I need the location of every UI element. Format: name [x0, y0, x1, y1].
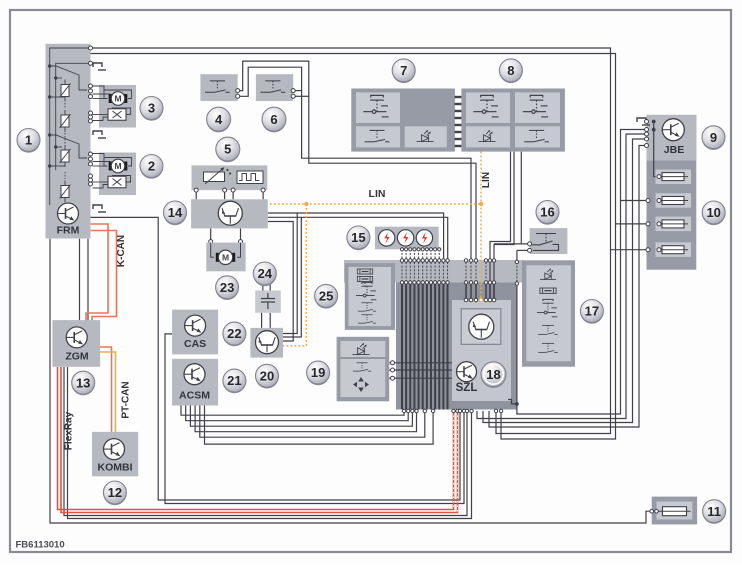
fuse row 2: [656, 193, 692, 208]
block 11 fuse symbol: [659, 507, 691, 516]
numbered callout circle 17: [580, 300, 603, 324]
wire red pair dashes near SZL bottom: [453, 411, 455, 510]
SZL coil spring sub-box: [461, 309, 501, 345]
svg-text:17: 17: [585, 304, 599, 319]
numbered callout circle 10: [702, 201, 725, 225]
svg-text:11: 11: [707, 504, 721, 519]
block 25 bracket symbol: [357, 269, 372, 274]
svg-text:1: 1: [25, 133, 32, 148]
svg-text:15: 15: [351, 230, 365, 245]
svg-text:21: 21: [227, 373, 241, 388]
svg-text:JBE: JBE: [664, 144, 684, 156]
wire block16 pin2 to SZL right dashed line: [517, 249, 530, 251]
transistor symbol JBE: [662, 119, 684, 141]
svg-text:16: 16: [540, 205, 554, 220]
motor M symbol: [211, 243, 241, 258]
wire ACSM fan line 6: [205, 406, 434, 445]
block 8 sub-box bottom-left LED: [466, 126, 510, 147]
wire FRM bottom pair to ZGM top line 2: [87, 239, 89, 320]
JBE and fuse carrier outer block: [647, 115, 697, 270]
FRM internal bus wire 1: [50, 48, 91, 205]
PWM symbol in block 5: [237, 171, 263, 184]
svg-text:22: 22: [227, 326, 241, 341]
wire ACSM fan line 3: [190, 406, 412, 427]
wire K-CAN dark single FRM to SZL bottom: [91, 217, 461, 500]
wire FRM to top-right highway line 1: [91, 48, 611, 434]
block 16 pins: [528, 242, 532, 246]
svg-text:14: 14: [168, 205, 183, 220]
svg-text:13: 13: [76, 375, 90, 390]
wire main vertical bundle 12 lines: [401, 284, 403, 410]
wire ZGM bottom dark pair to SZL line 2: [68, 367, 472, 519]
svg-text:KOMBI: KOMBI: [98, 462, 133, 474]
svg-text:7: 7: [400, 63, 407, 78]
column control module block 14: [191, 199, 268, 228]
wire block15 stubs to band: [401, 249, 403, 260]
block 7 sub-box bottom-left: [356, 126, 400, 147]
junction dot at SZL lower right: [515, 402, 519, 406]
svg-text:FB6113010: FB6113010: [16, 540, 65, 551]
svg-text:K-CAN: K-CAN: [116, 235, 127, 267]
svg-text:PT-CAN: PT-CAN: [121, 381, 132, 418]
motor M in block 2: [109, 159, 128, 173]
svg-text:M: M: [222, 253, 229, 263]
X-function box in block 3: [108, 109, 126, 121]
wire branch down to transistor block20 line 1: [283, 213, 297, 334]
mirror actuator block 3: [99, 85, 136, 128]
block 17 contact symbol: [537, 299, 557, 316]
block 7 sub-box top-left: [356, 92, 400, 123]
ribbon connector between 7 and 8: [455, 96, 462, 98]
numbered callout circle 2: [140, 155, 163, 179]
svg-text:9: 9: [710, 130, 717, 145]
svg-text:SZL: SZL: [456, 382, 478, 394]
transistor symbol block 14: [218, 201, 242, 225]
fuse row 3: [656, 217, 692, 232]
svg-text:ACSM: ACSM: [179, 390, 210, 402]
block 19 inner panel: [341, 341, 386, 397]
block 25 bracket symbol 2: [357, 276, 372, 281]
FRM internal resistor symbols: [60, 80, 71, 102]
wire capacitor to transistor block: [261, 313, 263, 328]
wire FRM bottom-left single to component 11: [50, 239, 652, 523]
wire LIN dotted horizontal: [270, 203, 481, 205]
wire ACSM fan line 5: [200, 406, 425, 438]
wire ZGM bottom dark pair to SZL line 1: [64, 367, 467, 516]
FRM right edge pins: [89, 46, 93, 50]
block 17 switch symbol 2: [538, 343, 558, 352]
SZL bottom pin row: [402, 409, 405, 412]
wire PT-CAN pair line 1 ZGM to KOMBI: [100, 347, 111, 432]
wire PT-CAN pair line 2 ZGM to KOMBI: [100, 352, 115, 432]
numbered callout circle 20: [256, 364, 279, 388]
block 19 right pins: [391, 361, 395, 365]
FRM junction dots: [48, 64, 51, 67]
switch block 16: [530, 228, 568, 254]
wire fuse row2 to bundle: [621, 200, 649, 202]
numbered callout circle 22: [223, 322, 246, 346]
wire SZL feed left group dashed in band: [465, 262, 467, 282]
block 25 switch symbol 2: [358, 315, 376, 323]
central dark block behind SZL: [396, 283, 517, 410]
svg-text:4: 4: [215, 112, 223, 127]
wire block8 right pin 1 down-left to SZL: [490, 152, 511, 300]
connector band across centre: [344, 260, 523, 283]
fuse row 4: [656, 242, 692, 257]
numbered callout circle 24: [253, 262, 276, 286]
numbered callout circle 9: [702, 126, 725, 150]
FRM terminal symbol top: [93, 63, 106, 70]
wire block6 pin1 stub: [293, 90, 301, 92]
svg-text:25: 25: [319, 289, 333, 304]
numbered callout circle 18: [481, 362, 506, 388]
block 19 LED symbol: [353, 343, 370, 355]
control block 5: [192, 165, 268, 190]
CAS module block: [172, 310, 218, 355]
wire block14 third output to block20: [268, 222, 293, 342]
X-function box in block 2: [108, 176, 126, 188]
wire FRM to top-right highway line 2: [91, 54, 616, 440]
wire block8 right pin 3 down to junction: [520, 152, 522, 244]
SZL coil spring symbol: [469, 314, 494, 339]
numbered callout circle 8: [499, 59, 522, 83]
block 6 pins: [291, 89, 295, 93]
flasher bolt symbol 1: [379, 230, 395, 246]
numbered callout circle 16: [536, 201, 559, 225]
wires FRM to block 2: [93, 154, 132, 189]
wire block6 pin2 stub: [293, 95, 309, 97]
motor M in block 3: [109, 92, 128, 106]
band bottom pin row: [400, 281, 403, 284]
SZL module block: [452, 300, 511, 401]
wire block19 pin1 to SZL: [389, 362, 452, 364]
switch symbol block 6: [261, 81, 286, 92]
svg-text:19: 19: [311, 365, 325, 380]
wire ACSM fan line 1: [181, 406, 404, 416]
wire JBE pin3 feed: [483, 139, 647, 423]
JBE internal junction dots: [652, 120, 656, 124]
LIN pin into SZL: [479, 298, 483, 302]
block 17 switch symbol 1: [538, 325, 558, 334]
transistor symbol KOMBI: [104, 439, 125, 460]
dashed pin on SZL right: [515, 260, 518, 263]
switch symbol block 16: [532, 234, 559, 251]
switch block 6: [256, 74, 293, 101]
flasher bolt symbol 3: [416, 230, 432, 246]
wire SZL right edge hook to junction: [508, 400, 517, 404]
numbered callout circle 14: [164, 201, 187, 225]
block 8 sub-box top-right: [515, 92, 560, 123]
capacitor block 24: [255, 291, 281, 313]
wire capacitor block stubs up: [262, 282, 264, 291]
SZL top pins: [464, 298, 468, 302]
wire fuse row3 to bundle: [616, 223, 649, 225]
svg-text:2: 2: [148, 159, 155, 174]
block 17 inner panel: [526, 265, 571, 361]
numbered callout circle 4: [207, 107, 231, 132]
svg-text:CAS: CAS: [184, 338, 206, 350]
wire CAS to SZL bottom: [165, 334, 464, 504]
block 19 arrows symbol: [353, 377, 369, 392]
svg-text:FRM: FRM: [57, 225, 80, 237]
wire block14 to motor left: [210, 228, 212, 242]
svg-text:12: 12: [108, 485, 122, 500]
FRM terminal symbol bottom: [93, 205, 106, 212]
wire block14 to motor right: [240, 228, 242, 242]
numbered callout circle 13: [72, 371, 95, 395]
transistor circle block 20: [256, 331, 279, 354]
svg-text:6: 6: [270, 112, 277, 127]
svg-text:24: 24: [258, 266, 273, 281]
svg-text:5: 5: [224, 142, 231, 157]
svg-text:FlexRay: FlexRay: [64, 411, 75, 450]
switch cluster block 7: [351, 89, 455, 152]
motor block below 14: [206, 243, 245, 272]
transistor symbol ACSM: [184, 364, 205, 385]
numbered callout circle 3: [140, 97, 163, 121]
block 17 bracket symbol: [540, 288, 556, 293]
flasher bolt symbol 2: [397, 230, 413, 246]
wire block19 pin2 to SZL: [389, 369, 452, 371]
KOMBI module block: [92, 432, 138, 476]
wire ACSM fan line 2: [186, 406, 409, 421]
JBE internal wire to fuse 1: [654, 122, 659, 177]
wire JBE pin4 feed: [489, 146, 647, 428]
numbered callout circle 5: [216, 137, 240, 162]
numbered callout circle 15: [347, 226, 370, 250]
numbered callout circle 21: [223, 369, 246, 393]
wire FlexRay red pair line 2 ZGM to SZL: [61, 367, 458, 513]
wire SZL feed right group dashed in band: [485, 262, 487, 282]
svg-text:23: 23: [220, 280, 234, 295]
svg-text:8: 8: [507, 63, 514, 78]
FRM transistor symbol: [58, 203, 79, 224]
FRM module block: [46, 44, 91, 239]
band top pin row: [400, 259, 403, 262]
wires FRM to block 3: [93, 86, 132, 121]
wire LIN dotted vertical to block8: [480, 152, 482, 300]
capacitor symbol: [261, 293, 275, 309]
block 5 bottom pins: [194, 188, 198, 192]
block15 bottom pins: [400, 248, 403, 251]
svg-text:LIN: LIN: [369, 188, 386, 200]
block 11 inner: [657, 502, 693, 520]
LIN junction dot right: [479, 202, 483, 206]
LIN junction dot left: [304, 202, 308, 206]
wire block5 pins to block14: [195, 190, 197, 199]
numbered callout circle 1: [17, 129, 40, 153]
SZL transistor symbol: [457, 362, 477, 382]
switch cluster block 8: [461, 89, 565, 152]
switch symbol block 4: [205, 81, 230, 92]
wire FRM bottom pair to ZGM top line 1: [79, 239, 81, 320]
svg-text:M: M: [114, 94, 121, 104]
block 25 inner panel: [349, 267, 392, 326]
flasher block 15: [375, 227, 439, 250]
wire block14 to band pair line 2: [268, 217, 448, 260]
rheostat symbol in block 5: [204, 167, 232, 184]
wire K-CAN red pair line 1: [86, 224, 108, 320]
wire block4 pin1 loop over to block6 and band: [238, 61, 476, 260]
block 8 sub-box top-left: [466, 92, 510, 123]
svg-text:18: 18: [486, 367, 500, 382]
wire FlexRay red pair line 1 ZGM to SZL: [58, 367, 454, 510]
numbered callout circle 23: [216, 276, 239, 300]
control block 19 outer: [337, 337, 390, 402]
wire block4 pin2 loop over to block6 and band: [238, 67, 471, 260]
JBE terminal symbol: [637, 118, 650, 125]
transistor symbol CAS: [185, 315, 206, 336]
block 25 switch symbol 1: [358, 303, 376, 311]
svg-text:3: 3: [148, 101, 155, 116]
wire ACSM fan line 4: [195, 406, 416, 432]
switch block 4: [200, 74, 237, 101]
svg-text:20: 20: [260, 368, 274, 383]
block 19 switch symbol: [353, 363, 371, 371]
JBE left pins: [645, 120, 649, 124]
numbered callout circle 25: [315, 284, 338, 308]
fuse row 1: [656, 170, 692, 185]
block 11 pins: [650, 509, 654, 513]
ACSM module block: [172, 359, 218, 406]
wire block14 to band pair line 1: [268, 213, 444, 260]
switch cluster block 25 outer: [345, 263, 395, 330]
FRM terminal symbol middle: [93, 131, 106, 138]
svg-text:ZGM: ZGM: [65, 351, 89, 363]
numbered callout circle 6: [262, 107, 286, 132]
block 14 bottom pins: [209, 240, 213, 244]
block 17 LED symbol: [540, 268, 556, 279]
svg-text:10: 10: [706, 205, 720, 220]
wire branch down to transistor block20 line 2: [283, 217, 301, 337]
wire LIN branch down to block20: [283, 204, 306, 346]
wire bundle dashed in band: [401, 262, 403, 282]
transistor block 20: [250, 328, 283, 358]
wire block19 pin3 to SZL: [389, 377, 452, 379]
block 25 contact symbol: [356, 282, 376, 299]
FRM internal switch wiring: [50, 66, 87, 179]
numbered callout circle 12: [103, 481, 126, 505]
JBE light section: [647, 115, 697, 161]
ZGM module block: [52, 320, 100, 367]
numbered callout circle 19: [307, 361, 330, 385]
numbered callout circle 7: [392, 59, 415, 83]
wire K-CAN red pair line 2: [91, 231, 117, 321]
wire dashed along SZL right edge: [516, 250, 518, 262]
sensor block 11: [652, 497, 697, 525]
svg-text:LIN: LIN: [481, 172, 492, 188]
transistor symbol ZGM: [66, 327, 87, 348]
svg-text:M: M: [114, 161, 121, 171]
wire block8 right pin 2 down-left to SZL: [494, 152, 514, 300]
wire block16 pin1 horizontal: [494, 243, 530, 245]
block 7 sub-box bottom-middle LED: [405, 126, 447, 147]
block 4 pins: [236, 89, 240, 93]
block 8 sub-box bottom-right: [515, 126, 560, 147]
mirror actuator block 2: [99, 153, 136, 196]
wire JBE pin2 feed: [477, 134, 647, 419]
numbered callout circle 11: [703, 500, 726, 524]
wire fuse row4 to bundle: [611, 249, 649, 251]
wire JBE pin1 feed: [517, 130, 647, 415]
switch cluster block 17 outer: [522, 260, 575, 366]
block 19 divider: [341, 357, 386, 359]
